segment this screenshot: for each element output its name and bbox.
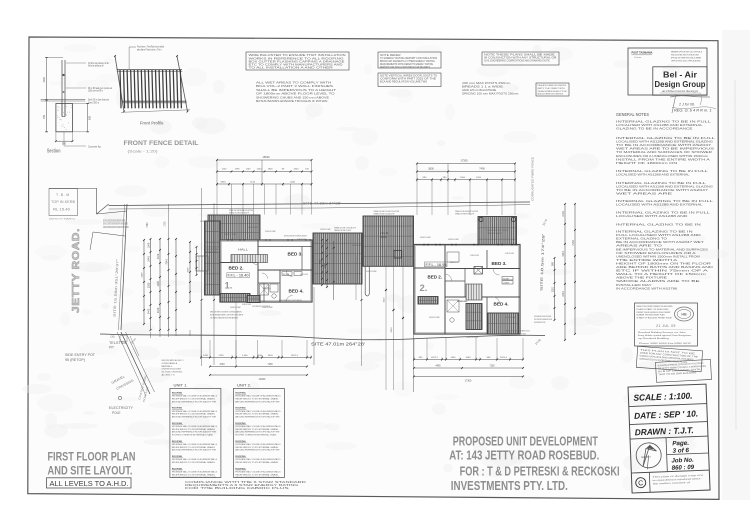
svg-text:SPACING 100 mm MAX POSTS 250mm: SPACING 100 mm MAX POSTS 250mm (462, 92, 518, 96)
svg-text:100 mm MAX POSTS 250mm: 100 mm MAX POSTS 250mm (462, 81, 510, 85)
svg-text:INTERNAL GLAZING TO BE IN FULL: INTERNAL GLAZING TO BE IN FULL (616, 170, 709, 173)
svg-text:ENCLOSURES OR A UNENCLOSED WIT: ENCLOSURES OR A UNENCLOSED WITHIN 1500mm (616, 155, 708, 158)
svg-text:3021: 3021 (551, 286, 554, 292)
svg-text:EXISTING CONCRETE CROSSING REI: EXISTING CONCRETE CROSSING REINSTATE NAT… (103, 223, 128, 226)
svg-text:LOCALISED WITH AS1288 AND EXTE: LOCALISED WITH AS1288 AND EXTERNAL GLAZI… (616, 186, 713, 189)
svg-text:2440: 2440 (147, 308, 150, 314)
svg-text:Steel 200 in: Steel 200 in (88, 102, 100, 105)
svg-text:1540 REF 204 LN 88 ALT: 1540 REF 204 LN 88 ALT (505, 316, 516, 319)
svg-text:Design Group: Design Group (655, 80, 706, 89)
svg-text:FRONTAGE WALL VOLUME OF ALUMIN: FRONTAGE WALL VOLUME OF ALUMINIUM WALLS (172, 410, 218, 413)
svg-text:1540 REF 204 LN 88 ALT: 1540 REF 204 LN 88 ALT (448, 238, 459, 241)
svg-text:3300: 3300 (188, 267, 190, 273)
svg-text:1.: 1. (225, 281, 233, 292)
svg-text:PLAN IS PART OF BUILDING: PLAN IS PART OF BUILDING (637, 308, 669, 311)
svg-text:FOR THE BUILDING FABRIC PLUS: FOR THE BUILDING FABRIC PLUS (185, 487, 290, 490)
svg-text:BED 2.: BED 2. (428, 275, 443, 280)
svg-text:1500: 1500 (460, 177, 466, 179)
svg-text:PROPOSED UNIT DEVELOPMENT: PROPOSED UNIT DEVELOPMENT (453, 435, 598, 449)
svg-text:RELIEF BRICKS TO 470 EXTERNAL: RELIEF BRICKS TO 470 EXTERNAL GRAVEL (235, 413, 279, 416)
svg-text:CROSSING GARDEN EDGE RETAIN NE: CROSSING GARDEN EDGE RETAIN NEW (210, 316, 238, 319)
svg-text:ROBE: ROBE (283, 274, 290, 276)
svg-text:SITE 47.83m 84°28': SITE 47.83m 84°28' (303, 201, 341, 205)
svg-text:EXTERNAL GLAZING TO: EXTERNAL GLAZING TO (616, 238, 667, 241)
svg-text:AROUND REFERENCE ROOFS EACH IF: AROUND REFERENCE ROOFS EACH IF THE (172, 476, 217, 479)
svg-text:Victoria: Victoria (634, 56, 642, 59)
svg-text:F.F.L - 16.95: F.F.L - 16.95 (426, 263, 447, 267)
svg-text:SPECIFIC WINDOW 98 5 SPECIFIC: SPECIFIC WINDOW 98 5 SPECIFIC WINDOW (284, 236, 307, 238)
svg-text:Phone 5982 6055 Fax 5982 6012: Phone 5982 6055 Fax 5982 6012 (639, 343, 692, 345)
svg-text:14930: 14930 (259, 378, 266, 381)
svg-text:AROUND REFERENCE ROOFS EACH IF: AROUND REFERENCE ROOFS EACH IF THE (172, 400, 217, 403)
svg-text:1540 REF 204 LN 88 ALT: 1540 REF 204 LN 88 ALT (366, 270, 377, 273)
svg-text:BATHS BASINS ENSURE TROUGHS IF: BATHS BASINS ENSURE TROUGHS IF WITHIN (256, 99, 327, 103)
svg-text:AROUND REFERENCE ROOFS EACH IF: AROUND REFERENCE ROOFS EACH IF THE (235, 449, 280, 452)
svg-text:TO ENERGY RATING REPORT FOR IN: TO ENERGY RATING REPORT FOR INSULATION (380, 57, 438, 60)
svg-text:7150: 7150 (489, 365, 495, 367)
svg-text:7140: 7140 (250, 182, 256, 184)
svg-text:BRICK L: BRICK L (450, 262, 459, 264)
svg-text:LOCALISED WITH AS1288 AND EXTE: LOCALISED WITH AS1288 AND EXTERNAL (616, 174, 690, 177)
svg-text:C: C (638, 480, 643, 487)
svg-text:4 2580 PANEL A: 4 2580 PANEL A (162, 362, 178, 365)
svg-text:TERRA LOW ONE DECK ALUTTE GUTT: TERRA LOW ONE DECK ALUTTE GUTTER (229, 209, 253, 212)
svg-text:4490: 4490 (435, 365, 441, 367)
svg-text:TERRA LOW ONE ROOF ALUTTE: TERRA LOW ONE ROOF ALUTTE (455, 213, 475, 216)
svg-text:1500 centres 90 x: 1500 centres 90 x (88, 90, 104, 93)
svg-text:LINEN: LINEN (503, 282, 510, 284)
svg-text:WALL TO A HEIGHT OF 150mm: WALL TO A HEIGHT OF 150mm (616, 273, 706, 276)
svg-text:REINSTATE NEW LOW HIGH: REINSTATE NEW LOW HIGH (205, 250, 216, 253)
svg-text:AROUND REFERENCE ROOFS EACH IF: AROUND REFERENCE ROOFS EACH IF THE (235, 416, 280, 419)
svg-text:INTERNAL GLAZING TO BE IN FULL: INTERNAL GLAZING TO BE IN FULL (616, 137, 717, 140)
svg-text:RELIEF BRICKS TO 470 EXTERNAL: RELIEF BRICKS TO 470 EXTERNAL GRAVEL (172, 473, 216, 476)
svg-text:TO ALL INSTALLATION A AND OTHE: TO ALL INSTALLATION A AND OTHER (249, 67, 334, 70)
svg-text:SMOKE ALARMS ARE TO BE: SMOKE ALARMS ARE TO BE (616, 280, 701, 283)
svg-text:up Rosebud Building: up Rosebud Building (638, 338, 670, 340)
svg-text:INSPECTION DRAFT DENOTES SEWER: INSPECTION DRAFT DENOTES SEWERAGE INSPEC… (534, 318, 552, 321)
svg-text:1540 REF 204 LN 88 ALT: 1540 REF 204 LN 88 ALT (265, 230, 276, 233)
svg-text:90 x 90 aal gun posts at: 90 x 90 aal gun posts at (88, 87, 112, 90)
svg-text:2440: 2440 (157, 307, 160, 313)
svg-text:NORTH: NORTH (641, 455, 650, 459)
svg-text:JETTY ROAD.: JETTY ROAD. (71, 228, 82, 313)
svg-text:SHOWERING CHUBS AND 150 mm ABO: SHOWERING CHUBS AND 150 mm ABOVE (256, 95, 329, 99)
svg-text:NEAREST LOOKOUT CHECK JUTTER N: NEAREST LOOKOUT CHECK JUTTER NEAREST LOO… (506, 330, 530, 333)
svg-text:4740: 4740 (219, 364, 225, 366)
svg-text:HEIGHT OF 1800mm ON THE FLOOR: HEIGHT OF 1800mm ON THE FLOOR (616, 262, 712, 265)
svg-text:15040: 15040 (262, 155, 270, 159)
svg-text:AROUND REFERENCE ROOFS EACH IF: AROUND REFERENCE ROOFS EACH IF THE (172, 449, 217, 452)
svg-text:DENOTES SEWERAGE INSPECTION DR: DENOTES SEWERAGE INSPECTION DRAFT DENOTE… (534, 315, 551, 318)
svg-text:TERRA LOW ONE C DECK ALUTTE: TERRA LOW ONE C DECK ALUTTE (334, 227, 356, 230)
svg-text:FRONTAGE WALL VOLUME OF ALUMIN: FRONTAGE WALL VOLUME OF ALUMINIUM WALLS (172, 395, 218, 398)
svg-text:PERMIT ISSUE SHIRE FLYING PERM: PERMIT ISSUE SHIRE FLYING PERMIT (637, 312, 672, 314)
svg-text:FRONT FENCE DETAIL: FRONT FENCE DETAIL (124, 140, 199, 147)
svg-text:1150: 1150 (246, 168, 251, 170)
svg-text:INTERNAL GLAZING TO BE IN: INTERNAL GLAZING TO BE IN (616, 224, 701, 227)
svg-text:AND SITE LAYOUT.: AND SITE LAYOUT. (48, 466, 133, 478)
svg-text:RELIEF BRICKS TO 470 EXTERNAL: RELIEF BRICKS TO 470 EXTERNAL GRAVEL (172, 461, 216, 464)
svg-text:1540 REF 204 LN 88 ALT: 1540 REF 204 LN 88 ALT (320, 228, 331, 231)
svg-text:(Scale - 1:20): (Scale - 1:20) (128, 149, 159, 154)
svg-text:1540: 1540 (147, 242, 150, 248)
svg-text:REQUIREMENTS NOTE REFER TO ENE: REQUIREMENTS NOTE REFER TO ENERGY RATING (380, 63, 433, 66)
svg-text:HB: HB (681, 313, 687, 317)
svg-text:1540 REF 204 LN 88 ALT: 1540 REF 204 LN 88 ALT (466, 336, 479, 339)
svg-text:RELIEF BRICKS TO 470 EXTERNAL: RELIEF BRICKS TO 470 EXTERNAL GRAVEL (172, 398, 216, 401)
svg-text:TERRA LOW ONE ROOF ALUTTE GUTT: TERRA LOW ONE ROOF ALUTTE GUTTER (455, 210, 478, 213)
svg-text:1060: 1060 (466, 357, 472, 359)
svg-text:17300: 17300 (465, 380, 472, 383)
svg-text:NEW LOW HIGH CONCRETE CROSSING: NEW LOW HIGH CONCRETE CROSSING GARDEN (210, 311, 242, 314)
svg-text:TO BE IN ACCORDANCE WITH AS204: TO BE IN ACCORDANCE WITH AS2047 (616, 189, 709, 192)
svg-text:NOTE THESE PLANS SHALL BE MADE: NOTE THESE PLANS SHALL BE MADE (484, 54, 556, 57)
svg-text:4040: 4040 (257, 355, 263, 357)
svg-text:DENOTES BRICK ALONG 7 0: DENOTES BRICK ALONG 7 0 (162, 359, 185, 362)
svg-text:ROOFING TO REMOVE BETWEEN ALL: ROOFING TO REMOVE BETWEEN ALL PLANS (172, 434, 213, 437)
svg-text:BRICKCAP PELMETS A OTHER ENERG: BRICKCAP PELMETS A OTHER ENERGY RATING (380, 60, 435, 63)
svg-text:ALL LEVELS TO A.H.D.: ALL LEVELS TO A.H.D. (50, 481, 129, 488)
svg-text:RELIEF BRICKS TO 470 EXTERNAL: RELIEF BRICKS TO 470 EXTERNAL GRAVEL (235, 461, 279, 464)
svg-text:ROOFING TO REMOVE BETWEEN ALL: ROOFING TO REMOVE BETWEEN ALL PLANS (235, 434, 276, 437)
svg-text:PIT: PIT (109, 346, 114, 350)
svg-text:1490: 1490 (451, 357, 457, 359)
svg-text:BED 4.: BED 4. (289, 289, 304, 294)
svg-text:1,060: 1,060 (242, 355, 248, 357)
svg-text:BED 2.: BED 2. (229, 266, 244, 271)
svg-text:3300: 3300 (147, 282, 150, 288)
svg-text:AROUND REFERENCE ROOFS EACH IF: AROUND REFERENCE ROOFS EACH IF THE (172, 416, 217, 419)
svg-text:AT: 143 JETTY ROAD ROSEBUD.: AT: 143 JETTY ROAD ROSEBUD. (449, 449, 599, 463)
svg-text:1540 REF 204 LN 88 ALT: 1540 REF 204 LN 88 ALT (420, 236, 431, 239)
svg-text:INVESTMENTS PTY. LTD.: INVESTMENTS PTY. LTD. (451, 479, 568, 493)
svg-text:TERRA LOW ONE ROOF: TERRA LOW ONE ROOF (487, 232, 503, 235)
svg-text:2190: 2190 (219, 355, 225, 357)
svg-text:HALL: HALL (238, 248, 248, 252)
svg-text:F 16.40: F 16.40 (380, 232, 389, 235)
svg-text:OF 1800mm ABOVE FLOOR LEVEL TO: OF 1800mm ABOVE FLOOR LEVEL TO (256, 92, 335, 96)
svg-text:INTERNAL GLAZING TO BE IN: INTERNAL GLAZING TO BE IN (616, 231, 693, 234)
svg-text:ALONG 7 0: ALONG 7 0 (162, 374, 176, 377)
svg-text:SITE 47.01m 264°28': SITE 47.01m 264°28' (311, 341, 365, 346)
svg-text:FRONTAGE WALL VOLUME OF ALUMIN: FRONTAGE WALL VOLUME OF ALUMINIUM WALLS (235, 410, 281, 413)
svg-text:17300: 17300 (460, 159, 468, 163)
svg-text:ETC IF WITHIN 75mm OF A: ETC IF WITHIN 75mm OF A (616, 270, 709, 273)
svg-text:F.F.L - 16.40: F.F.L - 16.40 (228, 274, 249, 278)
svg-text:POST TASMANIA: POST TASMANIA (632, 51, 653, 55)
svg-text:Rosebud Building Surveys ors J: Rosebud Building Surveys ors John (638, 332, 687, 334)
svg-text:TO MATERIAL AND SURFACES OF SH: TO MATERIAL AND SURFACES OF SHOWER (616, 151, 712, 154)
svg-text:2.: 2. (420, 283, 428, 294)
svg-text:ROBE: ROBE (503, 278, 510, 280)
svg-text:THE BALUSTRADE PHI FACILIT S T: THE BALUSTRADE PHI FACILIT S THE (538, 90, 568, 93)
svg-text:21 JUL 09: 21 JUL 09 (656, 324, 676, 328)
svg-text:3600: 3600 (428, 168, 434, 171)
svg-text:NOTE REFER: NOTE REFER (380, 55, 401, 57)
svg-text:2440: 2440 (562, 291, 565, 297)
svg-text:BE IMPERVIOUS TO MATERIAL AND: BE IMPERVIOUS TO MATERIAL AND SURFACES (616, 248, 708, 251)
svg-text:9580 4526 FAX 9555 FOR BUILDIN: 9580 4526 FAX 9555 FOR BUILDING (671, 54, 699, 57)
svg-text:RELIEF BRICKS TO 470 EXTERNAL: RELIEF BRICKS TO 470 EXTERNAL GRAVEL (172, 446, 216, 449)
svg-text:4021.2: 4021.2 (431, 357, 438, 359)
svg-text:AROUND REFERENCE ROOFS EACH IF: AROUND REFERENCE ROOFS EACH IF THE (235, 400, 280, 403)
svg-text:1540 REF 204 LN 88 ALT: 1540 REF 204 LN 88 ALT (230, 306, 241, 309)
svg-text:SHALL BE IMPERVIOUS TO A HEIGH: SHALL BE IMPERVIOUS TO A HEIGHT (256, 88, 337, 92)
svg-text:FOR : T & D PETRESKI & RECKOSK: FOR : T & D PETRESKI & RECKOSKI (460, 465, 620, 479)
svg-text:GLAZING TO BE IN ACCORDANCE: GLAZING TO BE IN ACCORDANCE (616, 128, 693, 131)
svg-text:aka farm Fixed wire x Trim: aka farm Fixed wire x Trim (137, 48, 161, 51)
svg-text:2130: 2130 (562, 211, 565, 217)
svg-text:CHECK JUTTER NEAREST LOOKOUT C: CHECK JUTTER NEAREST LOOKOUT CHECK (506, 332, 526, 335)
svg-text:POLE: POLE (112, 411, 121, 415)
svg-text:5900: 5900 (221, 182, 227, 184)
svg-text:THE AS ALT ACT BATHROOM CONVEN: THE AS ALT ACT BATHROOM CONVENTION (538, 84, 567, 87)
svg-text:1790: 1790 (235, 168, 241, 170)
svg-text:MEMBER OFFICE 9587 5421 OFFICE: MEMBER OFFICE 9587 5421 OFFICE A (671, 51, 702, 54)
svg-text:90mm lap antitiscup rail: 90mm lap antitiscup rail (88, 65, 104, 68)
svg-text:TERRA LOW ONE DECK ALUTTE: TERRA LOW ONE DECK ALUTTE (229, 212, 249, 215)
svg-text:AROUND REFERENCE ROOFS EACH IF: AROUND REFERENCE ROOFS EACH IF THE (235, 476, 280, 479)
svg-text:CORRUGATED FIBRE FENCE: CORRUGATED FIBRE FENCE (531, 157, 535, 201)
svg-text:ARE BEHIND BATHS AND BASINS AN: ARE BEHIND BATHS AND BASINS AND (616, 266, 713, 269)
svg-text:FRONTAGE WALL VOLUME OF ALUMIN: FRONTAGE WALL VOLUME OF ALUMINIUM WALLS (172, 458, 218, 461)
svg-text:1540 REF 204 LN 88 ALT: 1540 REF 204 LN 88 ALT (200, 220, 211, 223)
svg-text:990: 990 (551, 261, 554, 266)
svg-text:LOCALISED WITH AS1288 AND: LOCALISED WITH AS1288 AND (616, 215, 688, 218)
svg-text:LOCALISED WITH AS1288 AND EXTE: LOCALISED WITH AS1288 AND EXTERNAL GLAZI… (616, 141, 713, 144)
svg-text:FRONTAGE WALL VOLUME OF ALUMIN: FRONTAGE WALL VOLUME OF ALUMINIUM WALLS (235, 470, 281, 473)
svg-text:UNIT 2.: UNIT 2. (237, 383, 251, 388)
svg-text:1540 REF 204 LN 88 ALT: 1540 REF 204 LN 88 ALT (352, 244, 361, 247)
svg-text:7150: 7150 (267, 364, 273, 366)
svg-text:600: 600 (89, 115, 92, 120)
svg-text:Concrete ftg: Concrete ftg (88, 146, 101, 149)
svg-text:ROOF: ROOF (380, 236, 387, 239)
svg-text:IN ACCORDANCE WITH AS3786: IN ACCORDANCE WITH AS3786 (616, 287, 678, 290)
svg-text:1540 REF 204 LN 88 ALT: 1540 REF 204 LN 88 ALT (242, 303, 251, 306)
svg-text:(36): (36) (111, 336, 115, 339)
svg-text:BED 4.: BED 4. (494, 302, 509, 307)
svg-text:T.B.M: T.B.M (56, 193, 70, 197)
svg-text:1540 REF 204 LN 88 ALT: 1540 REF 204 LN 88 ALT (247, 226, 258, 229)
svg-text:TERRA LOW ONE ROOF 16.95 DECK: TERRA LOW ONE ROOF 16.95 DECK (487, 229, 508, 232)
svg-text:1800: 1800 (268, 168, 274, 170)
svg-text:GENERAL NOTES: GENERAL NOTES (616, 112, 649, 117)
svg-text:APPROVAL CERT TIMBER STRUCTURE: APPROVAL CERT TIMBER STRUCTURE LTD MEMBE… (671, 57, 701, 60)
svg-text:4340: 4340 (562, 251, 565, 257)
svg-text:TERRA LOW ONE CLICK ALUTTE: TERRA LOW ONE CLICK ALUTTE (374, 213, 395, 216)
svg-text:NOTE VERTICAL WIRES DOOR JOIST: NOTE VERTICAL WIRES DOOR JOISTS TO (380, 75, 437, 78)
svg-text:BED 3.: BED 3. (288, 252, 303, 257)
svg-text:CIVIL ENGINEERING COMPUTATIONS: CIVIL ENGINEERING COMPUTATIONS AND DRAWI… (484, 60, 550, 63)
svg-text:DENOTES SEWERAGE INSPECTION DR: DENOTES SEWERAGE INSPECTION DRAFT (534, 321, 546, 324)
svg-text:9021.4: 9021.4 (291, 355, 298, 357)
svg-text:FRONTAGE WALL VOLUME OF ALUMIN: FRONTAGE WALL VOLUME OF ALUMINIUM WALLS (172, 470, 218, 473)
svg-text:2440: 2440 (290, 182, 296, 184)
svg-text:WET AREAS ARE: WET AREAS ARE (616, 193, 673, 196)
svg-text:AS ALT ACT BATHROOM CONVENTION: AS ALT ACT BATHROOM CONVENTION (538, 93, 564, 96)
svg-text:4021.4: 4021.4 (500, 357, 507, 359)
svg-text:OF SHOWER ENCLOSURES OR A: OF SHOWER ENCLOSURES OR A (616, 252, 696, 255)
svg-text:1540 REF 204 LN 88 ALT: 1540 REF 204 LN 88 ALT (300, 273, 308, 276)
svg-text:RELIEF BRICKS TO 470 EXTERNAL: RELIEF BRICKS TO 470 EXTERNAL GRAVEL (172, 428, 216, 431)
svg-text:TERRA LOW ONE C DECK: TERRA LOW ONE C DECK (334, 229, 352, 232)
svg-text:4110: 4110 (384, 297, 386, 302)
svg-text:RELIEF BRICKS TO 470 EXTERNAL: RELIEF BRICKS TO 470 EXTERNAL GRAVEL (235, 446, 279, 449)
svg-text:REPORT FOR INSULATION BRICKCAP: REPORT FOR INSULATION BRICKCAP PELMETS (380, 66, 431, 69)
svg-text:1540 REF 204 LN 88 ALT: 1540 REF 204 LN 88 ALT (505, 252, 514, 255)
svg-text:RELIEF BRICKS TO 470 EXTERNAL: RELIEF BRICKS TO 470 EXTERNAL GRAVEL (172, 413, 216, 416)
svg-text:LOCALISED WITH AS1288 AND EXTE: LOCALISED WITH AS1288 AND EXTERNAL (616, 124, 704, 127)
svg-text:7150: 7150 (572, 240, 575, 246)
svg-text:FRONTAGE WALL VOLUME OF ALUMIN: FRONTAGE WALL VOLUME OF ALUMINIUM WALLS (235, 458, 281, 461)
svg-text:Bel - Air: Bel - Air (663, 71, 698, 80)
svg-text:RL 15.40: RL 15.40 (53, 208, 70, 212)
svg-text:FIRST FLOOR PLAN: FIRST FLOOR PLAN (48, 452, 136, 464)
svg-text:500: 500 (62, 143, 67, 146)
svg-text:WET AREAS ARE TO BE IMPERVIOUS: WET AREAS ARE TO BE IMPERVIOUS (616, 148, 715, 151)
svg-text:1500: 1500 (43, 77, 46, 83)
svg-text:7340: 7340 (147, 222, 149, 228)
svg-text:BED 3.: BED 3. (492, 261, 507, 266)
svg-text:FRONTAGE WALL VOLUME OF ALUMIN: FRONTAGE WALL VOLUME OF ALUMINIUM WALLS (172, 443, 218, 446)
svg-text:AROUND REFERENCE ROOFS EACH IF: AROUND REFERENCE ROOFS EACH IF THE (172, 431, 217, 434)
svg-text:RELIEF BRICKS TO 470 EXTERNAL: RELIEF BRICKS TO 470 EXTERNAL GRAVEL (235, 398, 279, 401)
svg-text:ALL WET AREAS TO COMPLY WITH: ALL WET AREAS TO COMPLY WITH (256, 81, 332, 85)
svg-text:Fix 90mm lap antitiscup rail F: Fix 90mm lap antitiscup rail Fix (88, 62, 109, 65)
svg-text:FRONTAGE WALL VOLUME OF ALUMIN: FRONTAGE WALL VOLUME OF ALUMINIUM WALLS (235, 395, 281, 398)
svg-text:ELECTRICITY: ELECTRICITY (109, 406, 134, 410)
svg-text:Front Profile: Front Profile (140, 121, 164, 126)
svg-text:FRONTAGE WALL VOLUME OF ALUMIN: FRONTAGE WALL VOLUME OF ALUMINIUM WALLS (172, 425, 218, 428)
svg-text:FRONTAGE WALL VOLUME OF ALUMIN: FRONTAGE WALL VOLUME OF ALUMINIUM WALLS (235, 425, 281, 428)
svg-text:1700: 1700 (165, 221, 167, 227)
svg-text:FULL LOCALISED WITH AS1288 AND: FULL LOCALISED WITH AS1288 AND (616, 234, 701, 237)
svg-text:INTERNAL GLAZING TO BE IN FULL: INTERNAL GLAZING TO BE IN FULL (616, 200, 714, 203)
svg-text:2440: 2440 (142, 272, 144, 278)
svg-text:PART 3 TO A CONNECT WITH: PART 3 TO A CONNECT WITH (538, 87, 565, 90)
svg-text:3 of 6: 3 of 6 (672, 447, 689, 455)
svg-text:2440: 2440 (294, 168, 300, 170)
svg-text:2440: 2440 (147, 256, 150, 262)
svg-text:1540 REF 204 LN 88 ALT: 1540 REF 204 LN 88 ALT (457, 300, 468, 303)
svg-text:EXISTING CONCRETE CROSSING REI: EXISTING CONCRETE CROSSING REINSTATE NAT… (103, 220, 125, 223)
svg-text:750: 750 (43, 114, 46, 119)
svg-text:95 (RETOP): 95 (RETOP) (65, 358, 85, 362)
svg-text:AROUND REFERENCE ROOFS EACH IF: AROUND REFERENCE ROOFS EACH IF THE (235, 431, 280, 434)
svg-text:EDGE RETAIN NEW LOW HIGH CONCR: EDGE RETAIN NEW LOW HIGH CONCRETE (210, 313, 244, 316)
svg-text:WILL GOODWILL Y DENOTES BRICK: WILL GOODWILL Y DENOTES BRICK (162, 372, 183, 374)
svg-text:CONFORM WITH PART 3325 OF THE: CONFORM WITH PART 3325 OF THE (380, 78, 437, 81)
svg-text:UNIT 1.: UNIT 1. (174, 383, 188, 388)
svg-text:7340: 7340 (165, 259, 168, 265)
svg-text:CONCRETE CROSSING REINSTATE NA: CONCRETE CROSSING REINSTATE NATURE EXIST… (103, 226, 129, 229)
svg-text:UNENCLOSED WITHIN 1500mm INSTA: UNENCLOSED WITHIN 1500mm INSTALL FROM (616, 255, 700, 258)
svg-text:1540 REF 204 LN 88 ALT: 1540 REF 204 LN 88 ALT (429, 316, 440, 319)
svg-text:LOCALISED WITH AS1288 AND EXTE: LOCALISED WITH AS1288 AND EXTERNAL (616, 204, 704, 207)
svg-text:INTERNAL GLAZING TO BE IN FULL: INTERNAL GLAZING TO BE IN FULL (616, 212, 711, 215)
svg-text:Every Builder spotted approval: Every Builder spotted approval Town Navi… (638, 334, 691, 337)
svg-text:THE ENTIRE WIDTH A: THE ENTIRE WIDTH A (616, 259, 678, 262)
svg-text:TO BE IN ACCORDANCE WITH AS204: TO BE IN ACCORDANCE WITH AS2047 (616, 144, 712, 147)
svg-text:1540 REF 204 LN 88 ALT: 1540 REF 204 LN 88 ALT (224, 233, 237, 236)
svg-text:INTERNAL GLAZING TO BE IN FULL: INTERNAL GLAZING TO BE IN FULL (616, 182, 707, 185)
svg-text:MARITIME 4: MARITIME 4 (162, 365, 173, 368)
svg-text:RELIEF BRICKS TO 470 EXTERNAL: RELIEF BRICKS TO 470 EXTERNAL GRAVEL (235, 473, 279, 476)
svg-text:HEIGHT OF 1800mm ON: HEIGHT OF 1800mm ON (616, 162, 678, 165)
svg-text:1240: 1240 (257, 168, 263, 170)
svg-text:ABOVE THE FIXTURE: ABOVE THE FIXTURE (616, 277, 668, 280)
svg-text:SIDE ENTRY POT: SIDE ENTRY POT (65, 353, 95, 357)
svg-text:HAND 125 mm BALUSTRADE: HAND 125 mm BALUSTRADE (462, 88, 496, 92)
svg-text:AREAS ARE TO: AREAS ARE TO (616, 245, 662, 248)
svg-text:IN CONJUNCTION WITH ANY STRUCT: IN CONJUNCTION WITH ANY STRUCTURAL OR (484, 57, 557, 60)
svg-text:FRONTAGE WALL VOLUME OF ALUMIN: FRONTAGE WALL VOLUME OF ALUMINIUM WALLS (235, 443, 281, 446)
svg-text:INTERNAL GLAZING TO BE IN FULL: INTERNAL GLAZING TO BE IN FULL (616, 121, 712, 124)
svg-text:1540 REF 204 LN 88 ALT: 1540 REF 204 LN 88 ALT (262, 306, 273, 309)
svg-text:BE IN ACCORDANCE WITH AS2047 W: BE IN ACCORDANCE WITH AS2047 WET (616, 241, 705, 244)
svg-text:TOILETS WINDOW 98 5 TOILETS WI: TOILETS WINDOW 98 5 TOILETS WINDOW (279, 300, 302, 302)
svg-text:1100: 1100 (222, 168, 227, 170)
svg-text:TOP IN KERB: TOP IN KERB (51, 200, 76, 204)
svg-text:(BENCH MARK): (BENCH MARK) (49, 218, 75, 221)
svg-text:28 PLASTERING NOT IN ACCORDANC: 28 PLASTERING NOT IN ACCORDANCE (162, 368, 182, 371)
svg-text:architectural design: architectural design (662, 89, 698, 93)
svg-text:INSTALL FROM THE ENTIRE WIDTH: INSTALL FROM THE ENTIRE WIDTH A (616, 158, 711, 161)
svg-text:2440: 2440 (157, 253, 160, 259)
svg-text:1300: 1300 (157, 281, 160, 287)
svg-text:Section: Section (47, 148, 61, 154)
svg-text:BREADS 1 1 a WIDE: BREADS 1 1 a WIDE (462, 85, 503, 89)
svg-text:1430: 1430 (203, 355, 209, 357)
svg-text:Steel 200 in Jane finis post: Steel 200 in Jane finis post (88, 99, 109, 102)
svg-text:TERRA LOW ONE CLICK ALUTTE GUT: TERRA LOW ONE CLICK ALUTTE GUTTER (374, 210, 400, 213)
svg-text:INSTALLED MAY: INSTALLED MAY (616, 284, 652, 287)
svg-text:1540 REF 204 LN 88 ALT: 1540 REF 204 LN 88 ALT (470, 254, 479, 257)
svg-text:BCA AND REGULATION VOLUME TWO: BCA AND REGULATION VOLUME TWO (380, 81, 427, 84)
svg-text:IS PART OF BUILDING PERMIT ISS: IS PART OF BUILDING PERMIT ISSUE (637, 317, 673, 320)
svg-text:3420: 3420 (268, 355, 274, 357)
svg-text:RELIEF BRICKS TO 470 EXTERNAL: RELIEF BRICKS TO 470 EXTERNAL GRAVEL (235, 428, 279, 431)
svg-text:1200: 1200 (476, 177, 482, 179)
svg-text:BCA VOL-2 PART 3 WALL FINISHES: BCA VOL-2 PART 3 WALL FINISHES (256, 84, 333, 88)
svg-text:860 : 09: 860 : 09 (672, 464, 695, 472)
svg-text:OFFICE 9587 5421 OFFICE A 9580: OFFICE 9587 5421 OFFICE A 9580 (671, 60, 701, 63)
svg-text:2 J for 08.: 2 J for 08. (678, 103, 695, 107)
svg-text:NUMBER THIS ENDORSED PLAN: NUMBER THIS ENDORSED PLAN (637, 314, 665, 317)
svg-text:1540 REF 204 LN 88 ALT: 1540 REF 204 LN 88 ALT (297, 238, 306, 241)
svg-text:7400: 7400 (479, 168, 485, 171)
svg-text:2410: 2410 (391, 327, 393, 333)
svg-text:Fixed wire x Trim Rail invent: Fixed wire x Trim Rail invent rafted (137, 46, 165, 49)
svg-text:SHIRE FLYING PERMIT NUMBER THI: SHIRE FLYING PERMIT NUMBER THIS ENDORSED (637, 306, 673, 308)
